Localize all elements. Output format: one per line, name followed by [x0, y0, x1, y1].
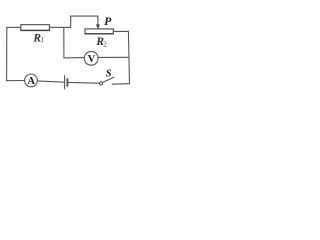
wire left vertical [6, 27, 8, 80]
ammeter A circle [25, 74, 38, 87]
battery long plate [64, 76, 66, 89]
wire battery to ammeter [37, 81, 64, 82]
wire top-left to R1 [7, 26, 21, 28]
wire R1 to junction [49, 26, 70, 28]
svg-text:S: S [106, 69, 112, 80]
wire voltmeter right [98, 56, 129, 58]
wire right vertical [128, 31, 129, 83]
wiper arrowhead [96, 24, 100, 29]
voltmeter V circle [84, 51, 98, 65]
resistor R1 [21, 25, 50, 31]
svg-text:1: 1 [40, 36, 44, 44]
wire bottom right to switch [112, 83, 129, 86]
rheostat R2 [85, 29, 113, 34]
wire junction down to voltmeter [64, 27, 85, 58]
wire switch to battery [68, 81, 99, 84]
svg-text:A: A [27, 76, 35, 87]
svg-text:P: P [104, 16, 111, 28]
wiper arrow P shaft [97, 16, 99, 25]
wire ammeter to left corner [7, 80, 25, 82]
svg-text:2: 2 [103, 41, 107, 49]
svg-text:V: V [88, 54, 96, 65]
R1 box bottom edge [21, 29, 49, 31]
wire top to wiper [71, 15, 98, 17]
wire R2 right [113, 30, 128, 32]
R2 box bottom edge [85, 33, 113, 35]
switch S lever [102, 77, 114, 82]
switch pivot [99, 82, 102, 85]
battery short plate [66, 79, 68, 86]
wire step up [70, 16, 72, 27]
